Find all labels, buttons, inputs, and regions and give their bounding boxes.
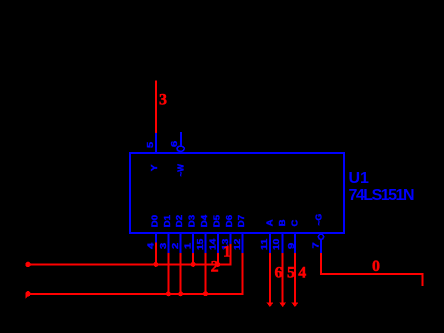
pin D2 stub (pin 2)	[180, 234, 182, 253]
svg-text:U1: U1	[349, 170, 370, 187]
svg-text:Y: Y	[149, 164, 159, 171]
arrow B	[279, 303, 286, 308]
junction D2	[178, 291, 183, 296]
pin ~G stub (pin 7)	[320, 240, 322, 254]
svg-text:D0: D0	[149, 215, 159, 228]
junction D4	[203, 291, 208, 296]
wire D1 drop	[167, 253, 169, 295]
svg-text:15: 15	[196, 238, 205, 250]
pin 5 stub (Y output, top)	[155, 132, 157, 152]
pin D4 stub (pin 15)	[205, 234, 207, 253]
svg-text:D4: D4	[199, 215, 209, 228]
terminal tail net 1 left	[26, 294, 31, 299]
pin A stub (pin 11)	[269, 234, 271, 253]
pin 6 inversion bubble	[177, 146, 184, 151]
svg-text:1: 1	[223, 243, 231, 260]
svg-text:7: 7	[312, 242, 321, 249]
svg-text:D1: D1	[162, 215, 172, 228]
svg-text:5: 5	[287, 265, 295, 282]
svg-text:~W: ~W	[176, 163, 186, 176]
pin B stub (pin 10)	[282, 234, 284, 253]
svg-text:D3: D3	[187, 215, 197, 228]
svg-text:74LS151N: 74LS151N	[349, 187, 414, 204]
pin D0 stub (pin 4)	[155, 234, 157, 253]
svg-text:6: 6	[275, 265, 283, 282]
arrow A	[266, 303, 273, 308]
svg-text:2: 2	[171, 242, 180, 249]
IC U1 74LS151N body	[130, 153, 344, 233]
junction D5	[215, 262, 220, 267]
pin ~G inversion bubble (pin 7)	[318, 234, 323, 239]
svg-text:4: 4	[146, 242, 155, 249]
wire net 1 horizontal bus 2	[27, 293, 244, 295]
svg-text:~G: ~G	[314, 213, 324, 225]
wire D7 drop	[242, 253, 244, 295]
svg-text:12: 12	[233, 238, 242, 250]
svg-text:C: C	[289, 220, 299, 227]
pin 6 stub (~W output, top, unconnected)	[180, 132, 182, 146]
wire C drop (net 4)	[294, 253, 296, 303]
svg-text:D6: D6	[224, 215, 234, 228]
junction D1	[166, 291, 171, 296]
pin D7 stub (pin 12)	[242, 234, 244, 253]
svg-text:A: A	[264, 220, 274, 227]
wire D0 drop	[155, 243, 157, 266]
svg-text:3: 3	[159, 242, 168, 249]
pin D5 stub (pin 14)	[217, 234, 219, 253]
svg-text:14: 14	[208, 238, 217, 250]
svg-text:9: 9	[287, 242, 296, 249]
pin D6 stub (pin 13)	[230, 234, 232, 253]
pin D3 stub (pin 1)	[192, 234, 194, 253]
svg-text:B: B	[277, 220, 287, 227]
svg-text:5: 5	[146, 141, 155, 148]
terminal dot net 1 left	[25, 291, 30, 296]
wire net 2 horizontal bus 1	[27, 263, 232, 265]
svg-text:11: 11	[260, 238, 269, 250]
svg-text:10: 10	[272, 238, 281, 250]
junction D3	[191, 262, 196, 267]
svg-text:6: 6	[170, 140, 179, 147]
arrow C	[291, 303, 298, 308]
svg-text:0: 0	[372, 258, 380, 275]
svg-text:4: 4	[298, 265, 306, 282]
wire D5 drop	[217, 253, 219, 266]
svg-text:D5: D5	[211, 215, 221, 228]
terminal dot net 2 left	[25, 262, 30, 267]
wire D3 drop	[192, 253, 194, 266]
pin C stub (pin 9)	[294, 234, 296, 253]
svg-text:2: 2	[211, 258, 219, 275]
wire D6 drop	[230, 244, 232, 266]
wire D2 drop	[180, 253, 182, 295]
wire B drop (net 5)	[282, 253, 284, 303]
svg-text:1: 1	[184, 242, 193, 249]
svg-text:D7: D7	[236, 215, 246, 228]
svg-text:3: 3	[159, 92, 167, 109]
junction D0	[153, 262, 158, 267]
wire A drop (net 6)	[269, 253, 271, 303]
pin D1 stub (pin 3)	[167, 234, 169, 253]
wire net 3 (vertical from Y)	[155, 80, 157, 133]
svg-text:D2: D2	[174, 215, 184, 228]
wire net 0 from ~G	[321, 253, 422, 286]
wire D4 drop	[205, 253, 207, 295]
